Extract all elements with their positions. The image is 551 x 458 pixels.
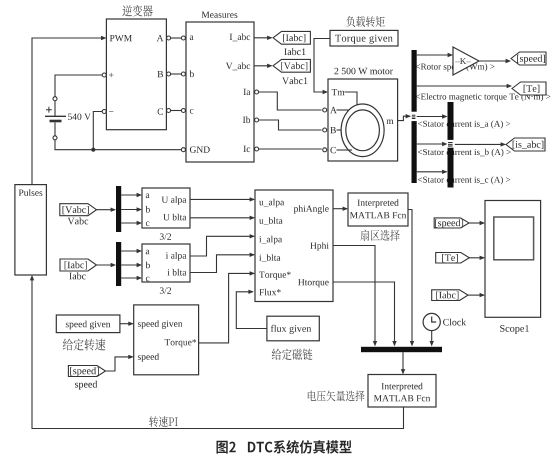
from tag speed (scope) xyxy=(434,218,469,228)
motor C internal lead xyxy=(337,149,353,151)
wire from speed to scope xyxy=(469,221,485,225)
pin label Tm xyxy=(332,89,345,95)
pin label Hphi xyxy=(310,242,329,251)
wire mux3 c xyxy=(121,221,142,225)
block text Interpreted (sector) xyxy=(358,199,399,208)
block motor 2500W xyxy=(328,79,398,161)
pin label Torque* xyxy=(259,272,291,280)
pin label Ia xyxy=(244,89,251,95)
from tag speed (PI) xyxy=(68,366,105,377)
pin label C xyxy=(330,147,335,153)
block title 2 500 W motor xyxy=(334,68,393,75)
wire B to b xyxy=(171,73,182,75)
wire Ib to motor B xyxy=(259,120,322,130)
block label 3/2 (U) xyxy=(160,233,171,239)
block i 3/2 transform xyxy=(142,244,190,282)
tag label Iabc1 xyxy=(284,48,305,55)
label 转速PI (speed PI) xyxy=(149,416,178,427)
pin label U alpa xyxy=(162,196,187,205)
goto tag Iabc1 xyxy=(273,31,310,44)
block U 3/2 transform xyxy=(142,188,190,228)
scope screen xyxy=(494,217,534,260)
wire from speed to PI xyxy=(105,355,134,371)
pin label speed xyxy=(138,353,159,362)
pin label u_blta xyxy=(259,217,283,225)
label 扇区选择 (sector selection) xyxy=(360,230,399,241)
pin label B xyxy=(157,71,163,77)
block label Clock xyxy=(443,319,466,326)
block Scope1 xyxy=(485,201,541,318)
wire from Iabc to scope xyxy=(468,293,485,297)
wire I_abc to goto Iabc1 xyxy=(254,36,273,40)
wire Htorque to voltage mux xyxy=(333,282,397,346)
block label Torque given xyxy=(335,35,393,44)
wire Torque given to Tm xyxy=(314,39,330,95)
pin label V_abc xyxy=(226,62,250,70)
wire Iabc to mux4 xyxy=(97,263,117,267)
block flux given constant xyxy=(267,316,319,341)
wire U blta to u_blta xyxy=(190,216,255,220)
gain block -K- xyxy=(453,47,479,75)
label 给定转速 (given speed) xyxy=(63,339,106,351)
port inverter C xyxy=(167,109,171,113)
from tag Te (scope) xyxy=(436,253,470,264)
pin label A xyxy=(330,107,337,113)
label 给定磁链 (given flux) xyxy=(272,349,313,360)
wire Ia to motor A xyxy=(259,92,322,110)
wire battery top lead xyxy=(54,101,56,117)
wire Te to goto xyxy=(417,84,512,88)
block speed PI controller xyxy=(134,305,199,375)
junction dot gnd rail xyxy=(91,148,95,152)
port inverter B xyxy=(167,72,171,76)
pin label b xyxy=(146,262,150,269)
wire Fcn2 feedback to Pulses xyxy=(30,275,404,429)
bus port gap on mux2 xyxy=(447,140,454,148)
pin label a xyxy=(190,36,194,41)
signal label is_c xyxy=(418,176,510,184)
wire C to c xyxy=(171,110,182,112)
motor Tm internal lead xyxy=(345,92,358,105)
port inverter + xyxy=(102,73,106,77)
pin label b xyxy=(146,206,150,213)
wire mux4 c xyxy=(121,276,142,280)
wire inverter - to gnd rail xyxy=(93,112,102,149)
goto tag Te xyxy=(512,82,546,95)
pin label b xyxy=(190,70,194,77)
label 电压矢量选择 (voltage vector selection) xyxy=(308,391,365,402)
pin label + xyxy=(109,73,113,78)
wire phiAngle to sector Fcn xyxy=(333,207,348,211)
label 负载转矩 (load torque) xyxy=(346,16,384,27)
wire Ic to motor C xyxy=(259,148,322,150)
wire Pulses to PWM xyxy=(32,36,106,185)
wire is_b to mux xyxy=(417,142,448,146)
signal label is_b xyxy=(418,149,511,157)
demux bar (motor bus) xyxy=(412,50,417,183)
port motor B xyxy=(323,128,327,132)
wire motor m to demux xyxy=(398,114,411,121)
wire mux4 a xyxy=(121,249,142,253)
pin label c xyxy=(146,277,150,282)
pin label Ic xyxy=(244,146,251,152)
bus port gap on demux xyxy=(411,112,418,121)
clock block xyxy=(423,313,440,330)
block Measures xyxy=(186,22,254,162)
pin label I_abc xyxy=(230,33,251,41)
block Torque given xyxy=(330,30,398,46)
block Interpreted MATLAB Fcn (sector) xyxy=(348,193,408,226)
wire i alpa to i_alpa xyxy=(190,234,255,256)
block DTC core xyxy=(255,190,333,302)
node battery bottom terminal xyxy=(53,136,57,140)
block Pulses xyxy=(15,185,47,275)
pin label U blta xyxy=(163,214,186,221)
block text Interpreted (voltage) xyxy=(382,383,423,392)
wire voltage mux to Fcn2 xyxy=(401,352,405,374)
block speed given constant xyxy=(56,315,120,333)
motor icon outer ellipse xyxy=(341,104,384,157)
block text MATLAB Fcn (voltage) xyxy=(374,395,430,401)
caption 图2 DTC系统仿真模型 xyxy=(217,440,352,454)
value label 540 V xyxy=(68,114,91,120)
block label flux given xyxy=(271,325,311,334)
pin label Torque* out xyxy=(165,339,197,347)
motor A internal lead xyxy=(337,109,350,111)
tag label Vabc1 xyxy=(282,77,307,84)
port Measures b xyxy=(181,72,185,76)
pin label i blta xyxy=(167,269,186,276)
wire flux given to DTC xyxy=(236,290,267,329)
motor icon inner ellipse xyxy=(346,110,380,151)
from tag Iabc (scope) xyxy=(432,290,468,301)
wire A to a xyxy=(171,37,182,39)
pin label u_alpa xyxy=(259,199,284,208)
tag label Iabc xyxy=(69,272,86,279)
block inverter xyxy=(106,19,166,130)
wire mux3 a xyxy=(121,193,142,197)
pin label - xyxy=(109,110,113,113)
pin label i_blta xyxy=(259,254,280,262)
port inverter - xyxy=(102,110,106,114)
wire mux2 to goto is_abc xyxy=(455,142,506,146)
pin label A xyxy=(157,35,164,41)
wire is_c to mux xyxy=(417,170,448,174)
signal label Te xyxy=(416,93,551,101)
wire clock to mux xyxy=(430,331,434,347)
wire speed given to PI xyxy=(120,322,134,326)
wire is_a to mux xyxy=(417,114,448,118)
pin label Flux* xyxy=(259,289,280,296)
mux bar4 (Iabc) xyxy=(116,242,121,286)
goto tag is_abc xyxy=(506,138,545,151)
port Measures Ia xyxy=(255,90,259,94)
port Measures c xyxy=(181,109,185,113)
mux bar3 (Vabc) xyxy=(116,186,121,232)
pin label PWM xyxy=(110,35,132,41)
wire from Te to scope xyxy=(469,256,485,260)
pin label B xyxy=(330,127,336,133)
node battery top terminal xyxy=(53,97,57,101)
wire U alpa to u_alpa xyxy=(190,197,255,201)
port motor A xyxy=(323,108,327,112)
from tag Vabc xyxy=(60,204,97,216)
motor B internal lead xyxy=(337,129,342,131)
port Measures Ib xyxy=(255,118,259,122)
wire battery to GND xyxy=(55,140,181,150)
port inverter A xyxy=(167,36,171,40)
battery positive plate xyxy=(45,115,66,117)
wire Vabc to mux3 xyxy=(97,208,117,212)
pin label i_alpa xyxy=(259,236,282,245)
tag label speed xyxy=(75,381,97,390)
wire sector Fcn to voltage mux xyxy=(408,210,414,347)
signal label is_a xyxy=(418,121,510,129)
pin label C xyxy=(158,108,163,114)
block label Scope1 xyxy=(500,325,529,334)
pin label a xyxy=(146,250,150,255)
signal label Rotor speed xyxy=(416,63,495,71)
mux bar5 (voltage vector inputs) xyxy=(361,347,442,352)
block label 3/2 (i) xyxy=(160,287,171,293)
pin label GND xyxy=(190,146,210,152)
block text MATLAB Fcn (sector) xyxy=(350,212,406,218)
port motor C xyxy=(323,148,327,152)
battery plus sign xyxy=(46,107,52,113)
wire V_abc to goto Vabc1 xyxy=(254,64,273,68)
wire battery bottom lead xyxy=(54,123,56,136)
wire rotor speed to gain xyxy=(417,53,453,57)
block label Pulses xyxy=(19,189,43,196)
wire i blta to i_blta xyxy=(190,253,255,273)
pin label a xyxy=(146,194,150,199)
wire gain to goto speed xyxy=(479,59,511,63)
port Measures a xyxy=(181,36,185,40)
block label speed given xyxy=(66,321,111,330)
pin label c xyxy=(146,222,150,227)
block Interpreted MATLAB Fcn (voltage) xyxy=(368,375,436,408)
pin label Htorque xyxy=(298,279,329,287)
tag label Vabc xyxy=(68,217,89,224)
wire Hphi to voltage mux xyxy=(333,246,377,347)
wire PI Torque* to DTC xyxy=(199,271,255,343)
goto tag Vabc1 xyxy=(273,59,310,72)
block title Measures xyxy=(202,12,238,18)
from tag Iabc xyxy=(60,259,97,271)
pin label c xyxy=(190,109,194,114)
wire mux3 b xyxy=(121,207,142,211)
wire mux4 b xyxy=(121,263,142,267)
pin label phiAngle xyxy=(294,205,329,214)
pin label Ib xyxy=(243,116,250,123)
pin label speed given xyxy=(138,320,183,329)
pin label i alpa xyxy=(166,252,187,261)
pin label m xyxy=(386,120,393,125)
port Measures Ic xyxy=(255,147,259,151)
wire inverter + to battery xyxy=(55,75,102,97)
mux bar (stator currents) xyxy=(448,102,454,188)
battery negative plate xyxy=(50,120,62,123)
port Measures GND xyxy=(181,148,185,152)
label 逆变器 (inverter) xyxy=(122,5,152,17)
goto tag speed xyxy=(511,52,546,65)
